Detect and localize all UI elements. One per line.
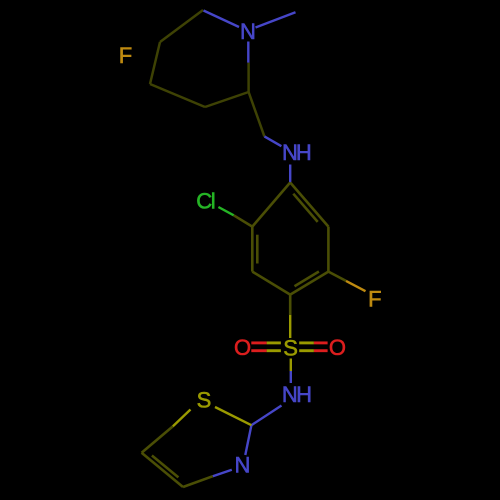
svg-text:H: H [296, 382, 312, 407]
svg-text:O: O [329, 335, 346, 360]
svg-text:O: O [234, 335, 251, 360]
svg-text:H: H [296, 140, 312, 165]
svg-text:F: F [368, 286, 381, 311]
svg-text:F: F [119, 43, 132, 68]
svg-text:N: N [240, 19, 256, 44]
svg-text:l: l [211, 188, 216, 213]
svg-text:S: S [283, 336, 298, 361]
svg-text:S: S [197, 388, 212, 413]
svg-text:N: N [234, 452, 250, 477]
